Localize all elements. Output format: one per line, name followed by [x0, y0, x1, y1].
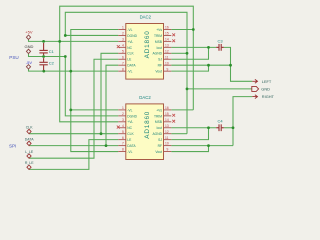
svg-text:-5V: -5V	[26, 60, 33, 65]
U1 pin lines	[118, 30, 171, 72]
wire DGND top loop to AGND pins	[65, 12, 187, 133]
junction AGND pin12 U1	[186, 52, 189, 55]
junction +5V rail C1	[42, 40, 45, 43]
wire DATA riser to pin7 U1	[106, 65, 118, 145]
svg-text:TRIM: TRIM	[154, 34, 162, 38]
svg-text:C2: C2	[49, 61, 55, 66]
wire C4 right stub	[224, 127, 233, 129]
svg-text:3: 3	[122, 38, 124, 42]
svg-text:15: 15	[165, 32, 169, 36]
svg-text:9: 9	[167, 148, 169, 152]
wire pin12 U2 AGND stub	[171, 133, 187, 135]
U1 pin names right	[152, 28, 162, 74]
svg-text:+5V: +5V	[25, 30, 33, 35]
wire pin10 U2 RF row	[171, 145, 233, 147]
hier pin R_LE	[27, 165, 31, 169]
svg-text:-VL: -VL	[127, 28, 132, 32]
junction -VL pin1 U2	[69, 109, 72, 112]
junction CLK tee	[100, 132, 103, 135]
junction RF Vout node U1	[207, 64, 210, 67]
wire +5V down to pin3 U2	[60, 41, 119, 121]
hier label GND	[252, 86, 259, 91]
svg-text:6: 6	[122, 136, 124, 140]
svg-text:+VL: +VL	[127, 120, 133, 124]
svg-text:+Vs: +Vs	[156, 28, 162, 32]
svg-text:11: 11	[165, 136, 169, 140]
wire C3 right to output node	[224, 47, 231, 65]
hier pin L_LE	[27, 154, 31, 158]
svg-text:+Vs: +Vs	[156, 108, 162, 112]
svg-text:13: 13	[165, 43, 169, 47]
junction -5V rail C2	[42, 70, 45, 73]
op-amp U2 body AD1860	[126, 95, 164, 159]
junction C4 RIGHT node	[232, 126, 235, 129]
svg-text:16: 16	[165, 106, 169, 110]
junction +5V rail riser	[58, 40, 61, 43]
wire DGND to pin2 U1	[65, 34, 118, 36]
svg-text:SJ: SJ	[158, 138, 162, 142]
svg-text:C3: C3	[218, 38, 224, 43]
svg-text:+VL: +VL	[127, 40, 133, 44]
wire pin10 U1 RF row	[171, 64, 230, 66]
svg-text:R_LE: R_LE	[25, 161, 34, 165]
capacitor C1	[39, 43, 47, 55]
wire +5V rail to pin3 U1	[29, 39, 119, 41]
junction LEFT output node	[229, 64, 232, 67]
junction GND output	[186, 88, 189, 91]
svg-text:RF: RF	[158, 144, 162, 148]
svg-text:DATA: DATA	[127, 144, 136, 148]
junction GND rail DGND riser	[64, 55, 67, 58]
svg-text:CLK: CLK	[127, 52, 134, 56]
svg-text:AD1860: AD1860	[144, 30, 151, 58]
wire CLK riser to pin5 U1	[101, 53, 118, 133]
svg-text:RF: RF	[158, 64, 162, 68]
capacitor C4	[216, 124, 224, 131]
svg-text:NC: NC	[127, 126, 132, 130]
wire RIGHT output rise	[233, 97, 252, 146]
svg-text:-VL: -VL	[127, 150, 132, 154]
svg-text:Vout: Vout	[155, 70, 162, 74]
svg-text:MSB: MSB	[155, 120, 163, 124]
junction +Vs pin16 U1	[192, 28, 195, 31]
svg-text:8: 8	[122, 67, 124, 71]
svg-text:-VL: -VL	[127, 70, 132, 74]
svg-text:15: 15	[165, 112, 169, 116]
svg-text:DATA: DATA	[127, 64, 136, 68]
svg-text:GND: GND	[24, 44, 33, 49]
junction Iout C3 node	[207, 46, 210, 49]
wire pin16 U2 stub	[171, 109, 193, 111]
svg-text:PSU: PSU	[9, 55, 18, 60]
svg-text:DAC2: DAC2	[139, 95, 151, 100]
svg-text:C1: C1	[49, 49, 55, 54]
svg-text:14: 14	[165, 118, 169, 122]
U1 no-connect marks	[117, 33, 175, 48]
svg-text:2: 2	[122, 112, 124, 116]
svg-text:5: 5	[122, 49, 124, 53]
wire -5V rail to pin8 U1	[29, 69, 119, 71]
wire Vout link U1 pin9 to RF	[171, 65, 208, 71]
power symbol -5V	[26, 65, 30, 69]
junction Iout C4 node	[207, 126, 210, 129]
junction RF Vout node U2	[207, 144, 210, 147]
svg-text:3: 3	[122, 118, 124, 122]
capacitor C3	[216, 44, 224, 51]
wire SJ link U1 pin13 to pin11	[171, 47, 208, 59]
svg-text:7: 7	[122, 142, 124, 146]
svg-text:LEFT: LEFT	[262, 79, 272, 84]
svg-text:SJ: SJ	[158, 58, 162, 62]
svg-text:Iout: Iout	[157, 126, 163, 130]
power symbol GND	[26, 49, 30, 53]
svg-text:9: 9	[167, 67, 169, 71]
svg-text:2: 2	[122, 32, 124, 36]
svg-text:4: 4	[122, 124, 124, 128]
svg-text:AGND: AGND	[152, 132, 162, 136]
svg-text:AGND: AGND	[152, 52, 162, 56]
junction DGND pin2 U1	[64, 34, 67, 37]
svg-text:DAC2: DAC2	[140, 14, 152, 19]
wire GND output	[187, 88, 252, 90]
svg-text:16: 16	[165, 26, 169, 30]
junction GND rail C1 C2	[42, 55, 45, 58]
svg-text:L_LE: L_LE	[25, 150, 34, 154]
svg-text:11: 11	[165, 55, 169, 59]
svg-text:CLK: CLK	[127, 132, 134, 136]
capacitor C2	[39, 58, 47, 70]
wire pin1 U2 stub	[71, 109, 119, 111]
wire CLK feeder to pin5 U2	[29, 133, 118, 135]
svg-text:AD1860: AD1860	[144, 111, 151, 139]
U1 pin numbers right	[165, 26, 169, 72]
svg-text:NC: NC	[127, 46, 132, 50]
U2 no-connect marks	[117, 114, 175, 129]
wire -VL pin1 U1 down to pin8 U2	[71, 30, 119, 152]
wire pin13 U2 Iout to C4	[171, 127, 216, 129]
svg-text:C4: C4	[218, 119, 224, 124]
U2 pin lines	[118, 110, 171, 152]
svg-text:DGND: DGND	[127, 114, 137, 118]
wire DATA feeder to pin7 U2	[29, 145, 118, 147]
svg-text:DGND: DGND	[127, 34, 137, 38]
op-amp U1 body AD1860	[126, 14, 164, 79]
svg-text:RIGHT: RIGHT	[262, 94, 275, 99]
svg-text:7: 7	[122, 61, 124, 65]
svg-text:TRIM: TRIM	[154, 114, 162, 118]
svg-text:DATA: DATA	[25, 137, 34, 141]
wire +5V top loop to pin16 nets	[60, 6, 194, 110]
svg-text:CLK: CLK	[26, 126, 33, 130]
wire DGND down to pin2 U2	[65, 57, 118, 116]
hier label LEFT	[252, 79, 257, 83]
svg-text:4: 4	[122, 43, 124, 47]
svg-text:14: 14	[165, 38, 169, 42]
svg-text:Iout: Iout	[157, 46, 163, 50]
svg-text:MSB: MSB	[155, 40, 163, 44]
svg-text:Vout: Vout	[155, 150, 162, 154]
wire SJ link U2 pin13 to pin11	[171, 128, 208, 140]
power symbol +5V	[26, 35, 30, 39]
wire R_LE feeder riser to pin6 U2	[29, 140, 118, 170]
wire pin16 U1 stub	[171, 29, 193, 31]
svg-text:10: 10	[165, 61, 169, 65]
svg-text:12: 12	[165, 49, 169, 53]
svg-text:13: 13	[165, 124, 169, 128]
svg-text:SPI: SPI	[9, 144, 16, 149]
svg-text:10: 10	[165, 142, 169, 146]
hier label RIGHT	[252, 95, 257, 99]
svg-text:1: 1	[122, 106, 124, 110]
svg-text:GND: GND	[261, 87, 270, 92]
hier pin DATA	[27, 141, 31, 145]
U2 pin names left	[127, 108, 137, 154]
hier pin CLK	[27, 129, 31, 133]
svg-text:8: 8	[122, 148, 124, 152]
svg-text:6: 6	[122, 55, 124, 59]
svg-text:5: 5	[122, 130, 124, 134]
wire pin12 U1 AGND stub	[171, 52, 187, 54]
U2 pin names right	[152, 108, 162, 154]
wire GND rail	[29, 54, 66, 57]
junction DATA tee	[105, 144, 108, 147]
U2 pin numbers right	[165, 106, 169, 152]
wire pin13 U1 Iout to C3	[171, 46, 216, 48]
U1 pin names left	[127, 28, 137, 74]
svg-text:12: 12	[165, 130, 169, 134]
svg-text:1: 1	[122, 26, 124, 30]
junction -5V rail -VL riser	[69, 70, 72, 73]
U1 pin numbers left	[122, 26, 124, 72]
wire L_LE feeder riser to pin6 U1	[29, 59, 118, 158]
U2 pin numbers left	[122, 106, 124, 152]
wire Vout link U2 pin9 to RF	[171, 146, 208, 152]
svg-text:-VL: -VL	[127, 108, 132, 112]
wire LEFT output drop	[231, 65, 253, 81]
